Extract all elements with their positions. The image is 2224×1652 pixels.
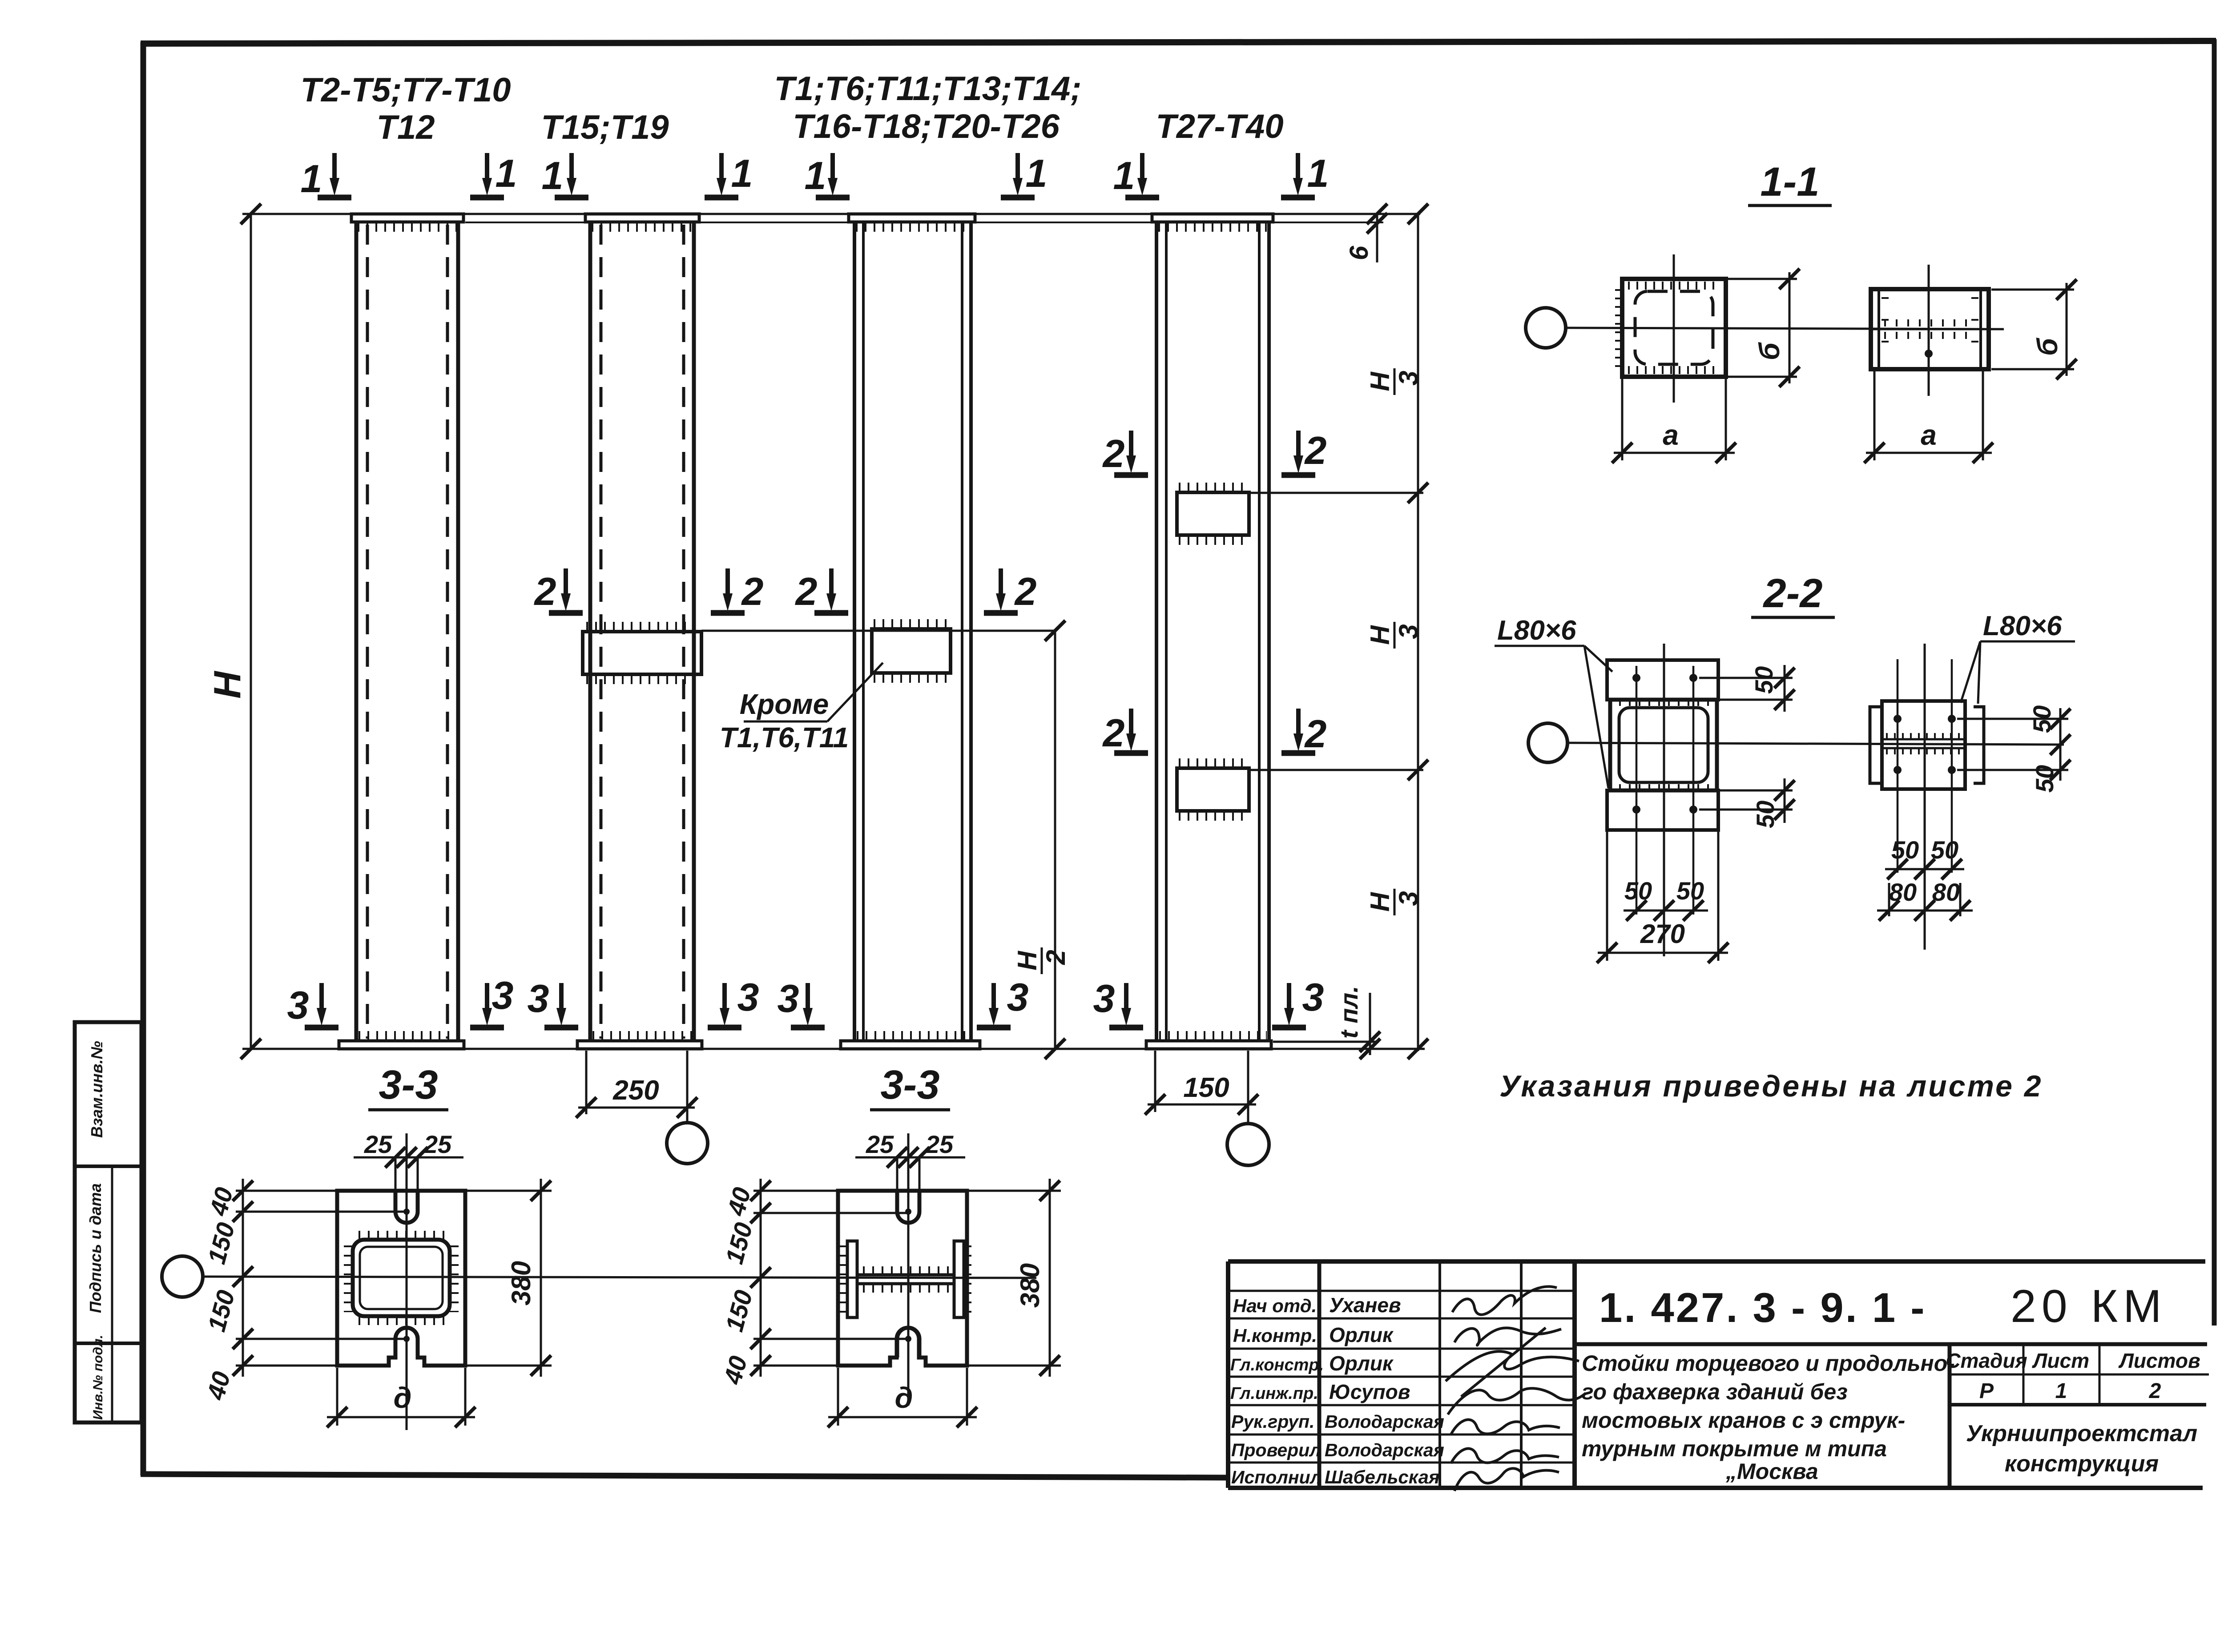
signature big slash bbox=[1461, 1328, 1546, 1397]
dimension line H/3 chain (right) bbox=[1417, 214, 1419, 1051]
slot extension lines above plate bbox=[896, 1157, 898, 1191]
svg-text:Орлик: Орлик bbox=[1329, 1352, 1394, 1375]
column T1 left wall outer bbox=[853, 222, 856, 1041]
svg-text:80: 80 bbox=[1889, 878, 1917, 906]
row line 7 bbox=[1228, 1462, 1575, 1464]
column T15 hidden wall left (dashed) bbox=[600, 225, 603, 1039]
dim line 270 bbox=[1598, 952, 1728, 954]
extension line bottom slot dot bbox=[753, 1338, 908, 1340]
dim line d bbox=[327, 1416, 475, 1418]
svg-text:3-3: 3-3 bbox=[379, 1062, 438, 1108]
ground line bbox=[242, 1048, 1425, 1050]
section mark 1 right of column T1 bbox=[1001, 153, 1035, 197]
bottom slot center dot bbox=[905, 1336, 911, 1342]
svg-text:1: 1 bbox=[2055, 1379, 2067, 1403]
column T1 base weld row bbox=[857, 1031, 969, 1041]
section mark 3 left of column T15 bbox=[544, 983, 578, 1027]
svg-text:Т27-Т40: Т27-Т40 bbox=[1156, 108, 1283, 145]
extension line at second third bbox=[1251, 769, 1423, 771]
svg-text:1. 427. 3 - 9. 1 -: 1. 427. 3 - 9. 1 - bbox=[1599, 1284, 1926, 1331]
svg-text:„Москва: „Москва bbox=[1725, 1459, 1818, 1484]
svg-text:1: 1 bbox=[542, 153, 564, 197]
signature row6 bbox=[1451, 1449, 1559, 1463]
dimension line t pl (base plate) bbox=[1369, 993, 1371, 1055]
svg-text:Стадия: Стадия bbox=[1946, 1349, 2027, 1372]
I-section left flange bbox=[847, 1241, 857, 1318]
tube weld row bottom bbox=[359, 1316, 445, 1325]
dim line d bbox=[828, 1416, 977, 1418]
plate bottom extension to 380 bbox=[465, 1365, 552, 1367]
tube weld row top bbox=[359, 1231, 445, 1240]
column T27 cap plate bbox=[1152, 214, 1273, 222]
box weld row bottom inside bbox=[1628, 366, 1720, 374]
box bottom extension bbox=[1720, 790, 1793, 792]
svg-text:1: 1 bbox=[731, 151, 753, 195]
plate top extension to left dims bbox=[753, 1190, 838, 1192]
dimension a below channels bbox=[1873, 371, 1876, 460]
svg-text:L80×6: L80×6 bbox=[1983, 611, 2062, 641]
svg-text:турным покрытие м типа: турным покрытие м типа bbox=[1582, 1436, 1887, 1461]
section mark 2 lower-left of column T27 bbox=[1114, 709, 1148, 753]
section mark 2 upper-left of column T27 bbox=[1114, 431, 1148, 475]
svg-text:3: 3 bbox=[737, 975, 759, 1019]
column T15 base plate bbox=[577, 1041, 702, 1049]
dimension line H/2 bbox=[1054, 631, 1056, 1049]
sheet/sheets divider bbox=[2099, 1344, 2101, 1405]
column T15 hidden wall right (dashed) bbox=[682, 225, 685, 1039]
svg-text:2: 2 bbox=[795, 569, 818, 613]
svg-text:1-1: 1-1 bbox=[1761, 159, 1820, 205]
svg-text:Т16-Т18;Т20-Т26: Т16-Т18;Т20-Т26 bbox=[793, 108, 1060, 145]
axis line 1-1 bbox=[1566, 328, 2004, 329]
box column outer (2-2) bbox=[1610, 700, 1717, 790]
extension line bottom slot dot bbox=[236, 1338, 407, 1340]
plate bottom extension to left dims bbox=[236, 1365, 337, 1367]
base plate outline (3-3 left) bbox=[337, 1191, 465, 1366]
svg-text:Т1,Т6,Т11: Т1,Т6,Т11 bbox=[720, 721, 849, 753]
column T27 lower bracket plate bbox=[1177, 768, 1249, 811]
section mark 1 right of column T15 bbox=[705, 153, 738, 197]
title block bottom edge bbox=[1228, 1486, 2203, 1490]
label H/2 bbox=[1012, 947, 1071, 974]
svg-text:д: д bbox=[895, 1381, 913, 1414]
column T1 mid bracket plate bbox=[872, 629, 951, 673]
dim 50 upper bbox=[1784, 665, 1786, 712]
joint double line bbox=[1882, 738, 1965, 741]
svg-text:Н.контр.: Н.контр. bbox=[1233, 1325, 1317, 1346]
plate side extensions down bbox=[336, 1368, 338, 1426]
svg-text:270: 270 bbox=[1640, 919, 1685, 949]
svg-text:Н: Н bbox=[1365, 625, 1395, 645]
svg-text:Укрниипроектстал: Укрниипроектстал bbox=[1966, 1421, 2197, 1447]
row line 6 bbox=[1228, 1434, 1575, 1436]
dimension b right of box bbox=[1789, 272, 1791, 383]
section mark 3 right of column T1 bbox=[977, 983, 1011, 1027]
plate bottom extension to left dims bbox=[753, 1365, 838, 1367]
svg-text:3: 3 bbox=[1394, 624, 1423, 639]
svg-text:25: 25 bbox=[925, 1130, 954, 1158]
extension col2 base left bbox=[585, 1051, 588, 1114]
leader to lower angle bbox=[1584, 646, 1608, 788]
column T27 left wall inner bbox=[1165, 222, 1168, 1041]
column tube section inner bbox=[360, 1247, 443, 1309]
dim line 80 80 bbox=[1877, 910, 1973, 912]
column T27 left wall outer bbox=[1155, 222, 1158, 1041]
lower angle plate (2-2 left) bbox=[1607, 790, 1718, 830]
base plate outline (3-3 right) bbox=[838, 1191, 967, 1366]
svg-text:2: 2 bbox=[741, 569, 764, 613]
svg-text:го фахверка зданий без: го фахверка зданий без bbox=[1582, 1379, 1848, 1404]
frame left border bbox=[141, 42, 146, 1475]
column T1 right wall outer bbox=[969, 222, 973, 1041]
column T2 base weld row bbox=[359, 1031, 456, 1041]
number cell bottom line bbox=[1575, 1342, 2207, 1346]
plate top extension to 380 bbox=[465, 1190, 552, 1192]
svg-text:Стойки торцевого и продольно-: Стойки торцевого и продольно- bbox=[1582, 1351, 1955, 1376]
svg-text:Инв.№ подл.: Инв.№ подл. bbox=[91, 1335, 105, 1420]
box column tube inner bbox=[1619, 708, 1708, 782]
svg-text:1: 1 bbox=[1113, 153, 1135, 197]
label L80x6 left bbox=[1495, 645, 1584, 647]
web weld row below bbox=[863, 1285, 950, 1293]
axis balloon below column T15 bbox=[667, 1123, 708, 1164]
leader to right angle bbox=[1978, 641, 1980, 704]
dimension line 250 bbox=[578, 1107, 695, 1109]
svg-text:Рук.груп.: Рук.груп. bbox=[1231, 1411, 1314, 1432]
left angle vertical leg bbox=[1870, 707, 1881, 783]
column T1 mid bracket weld row above bbox=[874, 619, 949, 628]
section mark 2 upper-right of column T27 bbox=[1281, 431, 1315, 475]
svg-text:Лист: Лист bbox=[2032, 1349, 2089, 1372]
row line 1 bbox=[1228, 1290, 1575, 1292]
svg-text:50: 50 bbox=[1931, 836, 1958, 864]
tube weld column left bbox=[344, 1245, 353, 1312]
I-section web top line bbox=[857, 1273, 954, 1277]
svg-text:380: 380 bbox=[506, 1261, 536, 1305]
row line 4 bbox=[1228, 1376, 1575, 1378]
dim line 380 bbox=[540, 1179, 542, 1377]
column T2 left wall bbox=[355, 222, 359, 1041]
leader note Кроме Т1,Т6,Т11 bbox=[720, 663, 883, 753]
frame top border bbox=[141, 41, 2216, 44]
section mark 3 right of column T15 bbox=[708, 983, 741, 1027]
column T2 cap weld row bbox=[358, 222, 457, 232]
label H/3 third bbox=[1365, 889, 1423, 915]
section mark 1 left of column T1 bbox=[816, 153, 850, 197]
leader line to bracket plate bbox=[827, 663, 883, 721]
svg-text:Гл.констр.: Гл.констр. bbox=[1230, 1356, 1324, 1374]
section mark 3 right of column T2 bbox=[470, 983, 504, 1027]
svg-text:Гл.инж.пр.: Гл.инж.пр. bbox=[1230, 1384, 1318, 1403]
channel web line left bbox=[1878, 291, 1880, 367]
column T15 left wall bbox=[588, 222, 592, 1041]
svg-text:б: б bbox=[2031, 337, 2063, 356]
svg-text:Володарская: Володарская bbox=[1325, 1411, 1444, 1432]
section mark 1 right of column T27 bbox=[1281, 153, 1315, 197]
column T27 upper bracket weld row below bbox=[1179, 536, 1247, 545]
lower angle bolts bbox=[1632, 806, 1640, 814]
column T27 upper bracket plate bbox=[1177, 492, 1249, 535]
svg-text:6: 6 bbox=[1345, 246, 1374, 260]
section mark 2 lower-right of column T27 bbox=[1281, 709, 1315, 753]
dimension b right of channels bbox=[2066, 283, 2068, 376]
section mark 1 left of column T15 bbox=[555, 153, 588, 197]
svg-text:2: 2 bbox=[534, 569, 556, 613]
column T2 right wall bbox=[456, 222, 460, 1041]
tube weld column right bbox=[450, 1245, 459, 1312]
svg-text:380: 380 bbox=[1015, 1263, 1045, 1308]
column line narrow/main bbox=[1572, 1261, 1577, 1488]
svg-text:2: 2 bbox=[1014, 569, 1037, 613]
axis horizontal line (through both 3-3) bbox=[203, 1277, 1036, 1278]
column T27 base plate bbox=[1146, 1041, 1271, 1049]
dim chain 40/150/150/40 bbox=[760, 1179, 762, 1377]
svg-text:Указания приведены на листе: Указания приведены на листе 2 bbox=[1499, 1069, 2043, 1103]
top anchor slot bbox=[395, 1191, 418, 1223]
column T2 hidden wall left (dashed) bbox=[366, 225, 369, 1039]
signature row4 bbox=[1448, 1388, 1586, 1414]
bottom slot arc bbox=[897, 1328, 919, 1358]
svg-text:3: 3 bbox=[1093, 976, 1115, 1020]
extension line at first third bbox=[1251, 492, 1423, 494]
svg-text:Володарская: Володарская bbox=[1325, 1440, 1444, 1460]
svg-text:2: 2 bbox=[1102, 711, 1125, 755]
channel mid joint line bbox=[1871, 328, 1989, 330]
svg-text:1: 1 bbox=[1026, 151, 1048, 195]
svg-text:Листов: Листов bbox=[2118, 1349, 2200, 1372]
column T27 right wall inner bbox=[1258, 222, 1261, 1041]
svg-text:1: 1 bbox=[301, 157, 322, 201]
row line 2 bbox=[1228, 1318, 1575, 1320]
box weld column left outside bbox=[1615, 289, 1623, 367]
center vertical line 3-3 left bbox=[406, 1133, 408, 1430]
svg-text:конструкция: конструкция bbox=[2005, 1451, 2159, 1477]
svg-text:1: 1 bbox=[805, 153, 826, 197]
dim line 380 bbox=[1049, 1179, 1051, 1377]
weld row under upper angle bbox=[1619, 700, 1710, 706]
svg-text:Т1;Т6;Т11;Т13;Т14;: Т1;Т6;Т11;Т13;Т14; bbox=[774, 70, 1081, 108]
svg-text:250: 250 bbox=[612, 1075, 659, 1106]
svg-text:2: 2 bbox=[2149, 1379, 2161, 1403]
center line vertical 2-2 right bbox=[1924, 644, 1926, 950]
svg-text:Уханев: Уханев bbox=[1329, 1293, 1401, 1317]
margin strip outline bbox=[75, 1022, 141, 1422]
svg-text:2: 2 bbox=[1102, 431, 1125, 475]
section mark 1 left of column T27 bbox=[1125, 153, 1159, 197]
signature row5 bbox=[1451, 1420, 1560, 1434]
svg-text:2: 2 bbox=[1041, 950, 1071, 965]
bottom slot center dot bbox=[403, 1336, 410, 1342]
center line vertical 2-2 left bbox=[1663, 644, 1665, 956]
column T15 mid bracket plate bbox=[583, 632, 701, 674]
weld row at joint bbox=[1886, 733, 1962, 740]
svg-text:Р: Р bbox=[1979, 1379, 1994, 1403]
channel section outer rect (1-1 right) bbox=[1871, 289, 1989, 369]
I-section web bottom line bbox=[857, 1282, 954, 1285]
column T27 right wall outer bbox=[1267, 222, 1271, 1041]
svg-text:L80×6: L80×6 bbox=[1497, 615, 1576, 646]
stage values underline bbox=[1950, 1403, 2206, 1406]
frame bottom border bbox=[141, 1474, 1229, 1478]
svg-text:50: 50 bbox=[1891, 836, 1919, 864]
column T15 cap weld row bbox=[592, 222, 693, 232]
stage header underline bbox=[1950, 1374, 2209, 1376]
svg-text:2: 2 bbox=[1304, 428, 1327, 472]
svg-text:Кроме: Кроме bbox=[740, 688, 829, 720]
channel weld row above joint bbox=[1884, 319, 1977, 326]
bolt gauge line left bbox=[1636, 666, 1638, 915]
svg-text:Т15;Т19: Т15;Т19 bbox=[541, 109, 669, 146]
svg-text:Взам.инв.№: Взам.инв.№ bbox=[88, 1041, 106, 1138]
row line 5 bbox=[1228, 1404, 1575, 1406]
column T27 cap weld row bbox=[1158, 222, 1267, 232]
column T1 mid bracket weld row below bbox=[874, 674, 949, 683]
title block top edge bbox=[1228, 1259, 2205, 1264]
extension col2 axis bbox=[686, 1051, 689, 1122]
svg-text:80: 80 bbox=[1932, 878, 1960, 906]
svg-text:Подпись и дата: Подпись и дата bbox=[86, 1183, 105, 1313]
dim line 50 50 bottom right detail bbox=[1885, 868, 1964, 870]
section mark 1 right of column T2 bbox=[470, 153, 504, 197]
svg-text:мостовых кранов с э струк-: мостовых кранов с э струк- bbox=[1582, 1408, 1905, 1433]
extension col4 base left bbox=[1154, 1051, 1156, 1112]
column T15 right wall bbox=[692, 222, 696, 1041]
channel center dot bbox=[1925, 350, 1933, 358]
svg-text:Н: Н bbox=[1365, 371, 1395, 391]
column T1 right wall inner bbox=[961, 222, 963, 1041]
dimension line 150 bbox=[1148, 1104, 1256, 1106]
svg-text:а: а bbox=[1663, 419, 1679, 451]
column T27 upper bracket weld row above bbox=[1179, 483, 1247, 492]
svg-text:Н: Н bbox=[1365, 892, 1395, 912]
svg-text:3-3: 3-3 bbox=[881, 1062, 940, 1108]
bolt row extension upper bbox=[1699, 677, 1793, 679]
svg-text:Проверил: Проверил bbox=[1231, 1440, 1321, 1460]
column T15 mid bracket weld row below bbox=[586, 675, 698, 684]
box top extension bbox=[1720, 699, 1793, 701]
right angle vertical leg bbox=[1974, 707, 1984, 783]
label H/3 first bbox=[1365, 368, 1423, 395]
column T15 base weld row bbox=[592, 1031, 692, 1041]
left angle horizontal leg bbox=[1869, 738, 1870, 741]
svg-text:3: 3 bbox=[1394, 891, 1423, 906]
column T15 mid bracket weld row above bbox=[586, 622, 698, 631]
bolts 2-2 right bbox=[1894, 715, 1902, 723]
bolt row extension lower bbox=[1699, 809, 1793, 811]
column line roles/names bbox=[1317, 1261, 1322, 1488]
svg-text:Орлик: Орлик bbox=[1329, 1323, 1394, 1346]
svg-text:50: 50 bbox=[1624, 877, 1652, 905]
svg-text:25: 25 bbox=[423, 1130, 452, 1158]
axis balloon below column T27 bbox=[1227, 1124, 1269, 1165]
dim line 25 25 bbox=[354, 1156, 463, 1159]
section mark 3 left of column T27 bbox=[1109, 983, 1143, 1027]
plate edge extension left bbox=[1606, 832, 1608, 961]
plate edge extension right bbox=[1717, 832, 1720, 961]
frame right border bbox=[2212, 39, 2217, 1326]
bolt row extensions to right bbox=[1957, 718, 2068, 720]
top extension line bbox=[242, 213, 1420, 215]
dim line 25 25 bbox=[855, 1156, 965, 1159]
margin strip inner vertical bbox=[111, 1166, 113, 1422]
svg-text:Н: Н bbox=[1012, 951, 1042, 971]
column T15 cap plate bbox=[585, 214, 699, 222]
svg-text:1: 1 bbox=[496, 151, 517, 195]
svg-text:Шабельская: Шабельская bbox=[1325, 1467, 1440, 1487]
signature row2 bbox=[1454, 1328, 1561, 1345]
svg-text:3: 3 bbox=[1007, 975, 1029, 1019]
top slot center dot bbox=[905, 1209, 911, 1215]
extension col4 axis bbox=[1247, 1051, 1249, 1124]
title block left edge bbox=[1226, 1261, 1230, 1488]
dimension line 6 (cap plate) bbox=[1376, 214, 1378, 262]
column T27 base weld row bbox=[1159, 1031, 1267, 1041]
svg-text:д: д bbox=[394, 1381, 412, 1414]
bottom slot arc bbox=[395, 1328, 418, 1358]
svg-text:25: 25 bbox=[364, 1130, 392, 1158]
svg-text:50: 50 bbox=[2031, 765, 2059, 793]
plate side extensions down bbox=[837, 1368, 839, 1426]
svg-text:3: 3 bbox=[492, 973, 514, 1017]
svg-text:50: 50 bbox=[2028, 705, 2056, 733]
dim 50 lower bbox=[1784, 778, 1786, 823]
extension line top slot dot bbox=[236, 1211, 407, 1213]
extension line at mid height (H/2) bbox=[701, 630, 1055, 632]
svg-text:3: 3 bbox=[1302, 975, 1324, 1019]
margin strip cell line 2 bbox=[75, 1342, 141, 1345]
svg-text:50: 50 bbox=[1750, 666, 1778, 694]
svg-text:Т12: Т12 bbox=[377, 109, 435, 146]
channel corner weld ticks left bbox=[1882, 297, 1889, 361]
web weld row above bbox=[863, 1266, 950, 1274]
base plate top extension line bbox=[1273, 1041, 1379, 1043]
section mark 2 left of column T15 bbox=[549, 568, 583, 613]
slot extension lines above plate bbox=[395, 1157, 397, 1191]
channel weld row below joint bbox=[1884, 332, 1977, 339]
channel center vertical line bbox=[1928, 265, 1930, 396]
dim 50 50 right bbox=[2059, 708, 2062, 781]
dimension a below box bbox=[1621, 379, 1624, 460]
column T1 cap weld row bbox=[856, 222, 970, 232]
svg-text:2-2: 2-2 bbox=[1763, 571, 1823, 616]
box section outer square (1-1 left) bbox=[1622, 279, 1726, 377]
dim chain 40/150/150/40 bbox=[242, 1179, 244, 1377]
svg-text:1: 1 bbox=[1307, 151, 1329, 195]
box weld row top inside bbox=[1628, 282, 1720, 290]
column T27 lower bracket weld row below bbox=[1179, 812, 1247, 821]
section mark 3 right of column T27 bbox=[1272, 983, 1306, 1027]
cap underside extension line (6 dim) bbox=[465, 222, 1383, 223]
svg-text:Юсупов: Юсупов bbox=[1329, 1380, 1410, 1403]
svg-text:50: 50 bbox=[1751, 801, 1779, 828]
dimension line H (left) bbox=[250, 214, 252, 1049]
svg-text:3: 3 bbox=[1394, 371, 1423, 385]
svg-text:3: 3 bbox=[528, 976, 549, 1020]
axis line 2-2 bbox=[1567, 743, 2064, 745]
signature row7 bbox=[1454, 1468, 1559, 1491]
flange weld column right bbox=[964, 1245, 971, 1313]
column T27 lower bracket weld row above bbox=[1179, 758, 1247, 767]
column line signatures/narrow bbox=[1520, 1261, 1523, 1488]
channel corner weld ticks right bbox=[1971, 297, 1978, 361]
column line names/signatures bbox=[1438, 1261, 1441, 1488]
svg-text:3: 3 bbox=[287, 983, 309, 1027]
svg-text:а: а bbox=[1921, 419, 1937, 451]
svg-text:150: 150 bbox=[1183, 1072, 1229, 1103]
svg-text:3: 3 bbox=[778, 976, 799, 1020]
axis balloon 3-3 left bbox=[162, 1256, 203, 1297]
column T1 left wall inner bbox=[862, 222, 865, 1041]
